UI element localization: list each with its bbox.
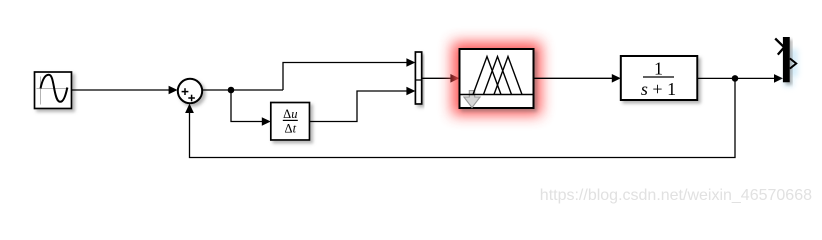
red selection glow around fuzzy block bbox=[452, 42, 541, 115]
node A junction dot after sum bbox=[228, 87, 235, 94]
scope bus bar block bbox=[783, 37, 790, 82]
sine wave source block bbox=[35, 72, 72, 109]
output port chevron right of bar bbox=[790, 58, 796, 68]
wire feedback loop bbox=[190, 78, 736, 157]
svg-text:Δt: Δt bbox=[285, 122, 297, 136]
derivative block du/dt bbox=[271, 103, 310, 141]
watermark text bbox=[540, 187, 812, 204]
fuzzy membership function triangles bbox=[460, 57, 534, 95]
svg-text:s + 1: s + 1 bbox=[641, 79, 676, 99]
node B junction dot after transfer function bbox=[732, 75, 739, 82]
fuzzy logic controller block U1 bbox=[460, 49, 534, 108]
gray download arrow badge on fuzzy block bbox=[464, 91, 480, 108]
wire derivative output to mux input 2 bbox=[310, 87, 416, 122]
wire upper branch to mux input 1 bbox=[283, 58, 415, 90]
unconnected input port chevron on bar bbox=[775, 39, 784, 55]
wire sum to branch corner bbox=[202, 89, 283, 91]
svg-text:https://blog.csdn.net/weixin_4: https://blog.csdn.net/weixin_46570668 bbox=[540, 187, 812, 204]
transfer function block 1/(s+1) bbox=[621, 56, 698, 100]
wire lower branch to derivative input bbox=[231, 90, 271, 126]
blue selection glow around scope bar bbox=[783, 49, 798, 87]
wire transfer function to scope bar bbox=[697, 74, 783, 83]
svg-text:1: 1 bbox=[654, 59, 663, 79]
wire sine to sum bbox=[72, 86, 178, 95]
arrowhead feedback into sum bottom bbox=[185, 104, 194, 113]
wire mux to fuzzy controller bbox=[422, 74, 460, 83]
wire fuzzy to transfer function bbox=[534, 74, 621, 83]
svg-text:Δu: Δu bbox=[283, 107, 297, 121]
sum block bbox=[178, 79, 202, 103]
mux block bbox=[415, 52, 421, 104]
